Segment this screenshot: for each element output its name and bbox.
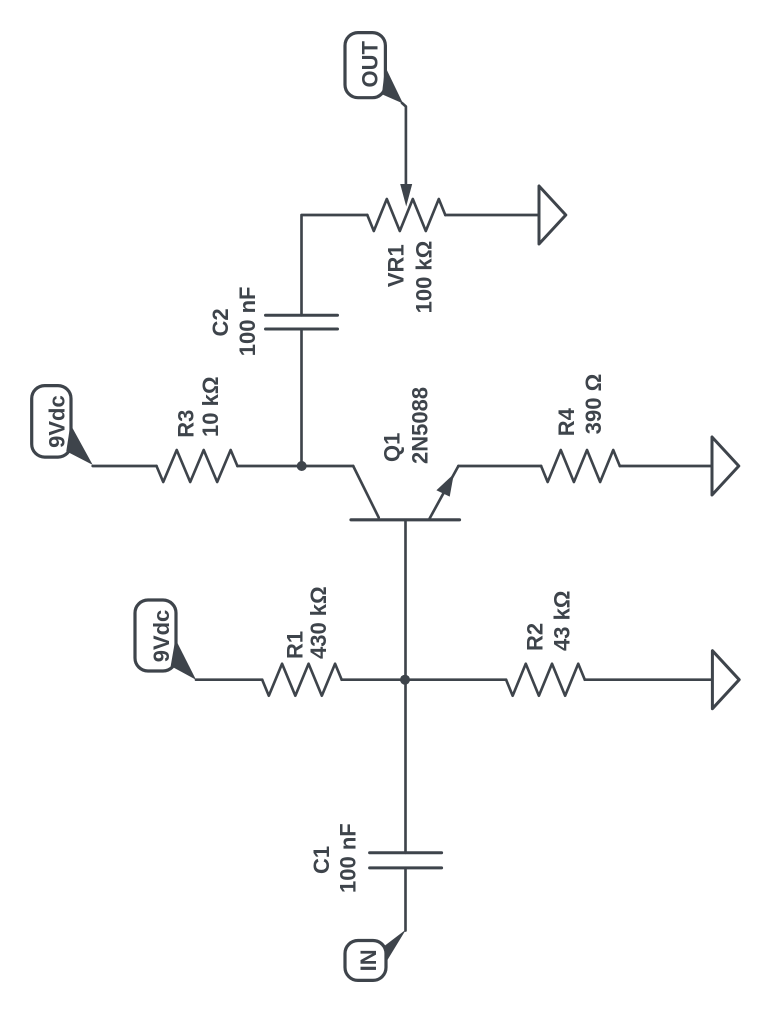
svg-text:2N5088: 2N5088 bbox=[407, 387, 432, 464]
resistor R1 bbox=[262, 664, 342, 696]
capacitor C2 bbox=[266, 314, 338, 317]
svg-text:R3: R3 bbox=[173, 410, 198, 438]
wire base node to C1 bbox=[404, 680, 407, 853]
svg-text:R4: R4 bbox=[554, 407, 579, 436]
wire R4 to port bbox=[620, 465, 712, 468]
wire base lead bbox=[404, 520, 407, 680]
svg-text:390 Ω: 390 Ω bbox=[581, 374, 606, 434]
svg-text:9Vdc: 9Vdc bbox=[45, 395, 70, 448]
9Vdc flag wedge (top) bbox=[66, 424, 92, 465]
svg-text:IN: IN bbox=[356, 949, 381, 971]
svg-text:C1: C1 bbox=[309, 846, 334, 874]
svg-text:R1: R1 bbox=[283, 631, 308, 659]
port triangle (R4 row) bbox=[712, 437, 739, 495]
wire R2 to port bbox=[585, 678, 713, 681]
svg-text:10 kΩ: 10 kΩ bbox=[198, 377, 223, 437]
svg-text:100 nF: 100 nF bbox=[235, 286, 260, 356]
wire 9Vdc to R1 bbox=[196, 678, 262, 681]
transistor Q1 bbox=[353, 466, 379, 518]
svg-text:430 kΩ: 430 kΩ bbox=[306, 586, 331, 659]
svg-text:100 kΩ: 100 kΩ bbox=[411, 241, 436, 314]
capacitor C1 bbox=[370, 851, 442, 854]
wire 9Vdc to R3 bbox=[93, 465, 157, 468]
wire node C to VR1 left bbox=[300, 329, 303, 466]
svg-text:R2: R2 bbox=[523, 623, 548, 651]
wire emitter to R4 bbox=[458, 465, 541, 468]
svg-text:Q1: Q1 bbox=[380, 433, 405, 462]
resistor R4 bbox=[541, 450, 620, 482]
9Vdc flag box (top) bbox=[32, 386, 71, 458]
resistor R2 bbox=[506, 664, 585, 696]
port triangle (R2 row) bbox=[712, 651, 739, 709]
wire C1 to IN bbox=[404, 868, 407, 931]
IN flag box bbox=[345, 941, 386, 981]
svg-text:OUT: OUT bbox=[358, 41, 383, 88]
potentiometer VR1 bbox=[367, 199, 445, 231]
OUT flag wedge bbox=[382, 67, 403, 104]
svg-text:9Vdc: 9Vdc bbox=[149, 610, 174, 663]
svg-text:43 kΩ: 43 kΩ bbox=[550, 591, 575, 651]
svg-text:100 nF: 100 nF bbox=[336, 823, 361, 893]
OUT flag box bbox=[345, 33, 385, 98]
svg-text:C2: C2 bbox=[208, 308, 233, 336]
wire VR1 to port bbox=[445, 214, 539, 217]
VR1 wiper arrowhead bbox=[400, 184, 412, 207]
IN flag wedge bbox=[385, 930, 406, 962]
wire OUT to VR1 wiper bbox=[402, 103, 406, 187]
node: junction dot R3/C2 bbox=[297, 461, 307, 471]
wire R3 to collector bbox=[237, 465, 353, 468]
node: junction dot base bbox=[400, 675, 410, 685]
wire R1 to R2 bbox=[342, 678, 506, 681]
port triangle (VR1 row) bbox=[539, 186, 566, 244]
9Vdc flag box (bottom) bbox=[135, 600, 176, 671]
9Vdc flag wedge (bottom) bbox=[171, 639, 196, 680]
svg-text:VR1: VR1 bbox=[384, 244, 409, 287]
resistor R3 bbox=[157, 450, 238, 482]
